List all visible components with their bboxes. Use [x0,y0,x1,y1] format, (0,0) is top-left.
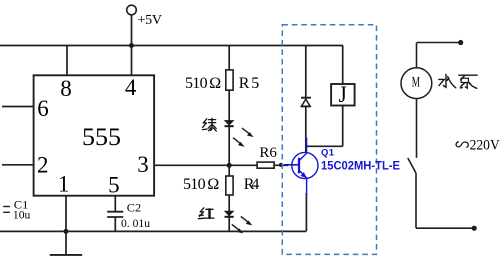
svg-text:R5: R5 [239,75,260,92]
svg-text:Ω: Ω [207,176,219,193]
svg-text:Q1: Q1 [321,147,335,158]
svg-text:6: 6 [37,96,49,121]
svg-text:Ω: Ω [209,75,221,92]
svg-text:J: J [339,82,347,107]
svg-text:C2: C2 [127,200,141,214]
svg-text:3: 3 [137,152,149,177]
svg-text:555: 555 [82,124,121,151]
svg-text:5: 5 [108,173,120,198]
svg-text:220V: 220V [470,137,501,153]
svg-text:15C02MH-TL-E: 15C02MH-TL-E [321,159,400,173]
svg-text:M: M [412,74,420,90]
svg-text:0. 01u: 0. 01u [121,218,150,230]
svg-text:8: 8 [60,76,71,101]
svg-text:R4: R4 [244,176,260,193]
svg-text:510: 510 [185,75,208,92]
svg-text:R6: R6 [259,145,277,161]
svg-text:10u: 10u [13,207,30,221]
svg-text:510: 510 [183,176,206,193]
svg-text:+5V: +5V [138,13,163,28]
svg-text:4: 4 [125,75,137,100]
svg-text:1: 1 [58,172,70,197]
svg-text:2: 2 [37,153,49,178]
